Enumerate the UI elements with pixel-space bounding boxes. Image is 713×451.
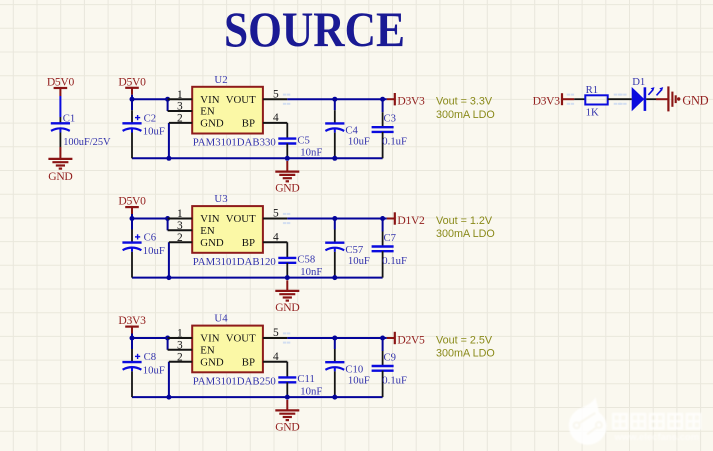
svg-text:C3: C3 — [384, 113, 396, 125]
svg-text:1: 1 — [177, 89, 183, 101]
op-amp regulator U4 PAM3101DAB250 — [192, 313, 276, 388]
svg-text:10uF: 10uF — [348, 255, 370, 267]
wire input rail — [132, 337, 168, 339]
svg-text:C5: C5 — [297, 134, 309, 146]
svg-text:10uF: 10uF — [143, 126, 165, 138]
wire output rail — [283, 332, 387, 343]
svg-text:10uF: 10uF — [348, 136, 370, 148]
pin 5 VOUT stub — [263, 218, 287, 220]
wire C1 to ground — [59, 147, 61, 159]
svg-text:R1: R1 — [586, 84, 598, 96]
pin 1 VIN stub — [168, 337, 193, 339]
svg-text:1: 1 — [177, 208, 183, 220]
wire input rail — [132, 98, 168, 100]
svg-text:4: 4 — [273, 231, 279, 243]
svg-text:D5V0: D5V0 — [118, 195, 146, 208]
wire D1 cathode — [646, 98, 656, 100]
svg-text:D5V0: D5V0 — [118, 75, 146, 88]
node junction bottom rail pin2 — [166, 395, 171, 400]
resistor R1 1K — [585, 84, 607, 119]
svg-text:C2: C2 — [144, 112, 156, 124]
svg-text:10nF: 10nF — [300, 147, 322, 159]
wire pin1 to pin3 (EN tie) — [167, 338, 169, 350]
svg-text:Vout = 2.5V: Vout = 2.5V — [436, 334, 493, 346]
capacitor C11 10nF (bypass) — [278, 362, 322, 398]
svg-text:VIN: VIN — [200, 333, 219, 345]
node junction pin1 — [165, 97, 170, 102]
svg-text:U2: U2 — [214, 74, 227, 86]
svg-text:VOUT: VOUT — [226, 333, 256, 345]
ground GND (bar style, LED return) — [668, 86, 708, 111]
wire R1 to D1 — [608, 98, 632, 100]
svg-text:GND: GND — [682, 93, 708, 107]
node input junction at C2 — [130, 97, 135, 102]
node junction bottom C57 — [332, 275, 337, 280]
capacitor C58 10nF (bypass) — [278, 242, 322, 278]
node input junction at C6 — [130, 216, 135, 221]
svg-text:PAM3101DAB250: PAM3101DAB250 — [193, 375, 276, 387]
node junction output C10 — [332, 336, 337, 341]
node junction output C9 — [380, 336, 385, 341]
wire bottom ground rail — [132, 157, 383, 159]
svg-text:D5V0: D5V0 — [47, 75, 75, 88]
op-amp regulator U3 PAM3101DAB120 — [192, 193, 276, 268]
node junction pin1 — [165, 216, 170, 221]
capacitor C8 10uF (input) — [122, 338, 164, 397]
pin 4 BP stub — [263, 241, 287, 243]
power port D5V0 row U3 — [118, 195, 146, 219]
svg-text:2: 2 — [177, 351, 183, 363]
svg-text:100uF/25V: 100uF/25V — [63, 137, 111, 148]
svg-text:1K: 1K — [586, 107, 599, 119]
capacitor C9 0.1uF (output) — [372, 338, 407, 397]
svg-text:300mA LDO: 300mA LDO — [436, 109, 495, 121]
pin 4 BP stub — [263, 122, 287, 124]
svg-text:PAM3101DAB120: PAM3101DAB120 — [193, 256, 276, 268]
node junction bottom C4 — [332, 156, 337, 161]
svg-text:10uF: 10uF — [143, 245, 165, 257]
svg-text:SOURCE: SOURCE — [224, 1, 405, 57]
wire pin1 to pin3 (EN tie) — [167, 219, 169, 231]
svg-text:GND: GND — [200, 356, 224, 368]
pin 3 EN stub — [168, 110, 193, 112]
power port D3V3 row U4 — [118, 314, 146, 338]
svg-text:4: 4 — [273, 351, 279, 363]
annotation Vout = 1.2V — [436, 215, 495, 240]
svg-text:5: 5 — [273, 88, 279, 100]
ground below C1 — [48, 159, 72, 183]
wire input rail — [132, 218, 168, 220]
power port D2V5 (output) — [387, 332, 425, 347]
capacitor C6 10uF (input) — [122, 219, 164, 278]
wire output rail — [283, 94, 387, 105]
svg-text:GND: GND — [275, 420, 299, 433]
capacitor C10 10uF (output) — [325, 338, 370, 397]
svg-text:D3V3: D3V3 — [533, 95, 561, 108]
svg-text:BP: BP — [242, 237, 255, 249]
svg-text:300mA LDO: 300mA LDO — [436, 228, 495, 240]
wire to GND bar — [656, 98, 668, 100]
svg-text:10nF: 10nF — [300, 385, 322, 397]
annotation Vout = 2.5V — [436, 334, 495, 359]
svg-text:GND: GND — [48, 170, 72, 183]
svg-text:EN: EN — [200, 106, 215, 118]
watermark logo elecfans — [569, 397, 607, 445]
node junction bypass cap bottom — [285, 156, 290, 161]
pin 2 GND stub — [169, 361, 192, 363]
svg-text:VIN: VIN — [200, 213, 219, 225]
watermark text elecfans — [613, 414, 700, 428]
svg-text:0.1uF: 0.1uF — [382, 136, 407, 148]
capacitor C57 10uF (output) — [325, 219, 370, 278]
svg-text:3: 3 — [177, 220, 183, 232]
svg-text:GND: GND — [200, 237, 224, 249]
svg-text:BP: BP — [242, 356, 255, 368]
node junction bypass cap bottom — [285, 275, 290, 280]
svg-text:10uF: 10uF — [348, 374, 370, 386]
pin 3 EN stub — [168, 349, 193, 351]
node junction output C57 — [332, 216, 337, 221]
node junction bottom rail pin2 — [166, 275, 171, 280]
svg-text:300mA LDO: 300mA LDO — [436, 348, 495, 360]
svg-text:U3: U3 — [214, 193, 227, 205]
svg-text:GND: GND — [200, 118, 224, 130]
svg-text:C11: C11 — [297, 373, 314, 385]
svg-text:C1: C1 — [63, 113, 75, 125]
node input junction at C8 — [130, 336, 135, 341]
svg-text:D2V5: D2V5 — [397, 334, 425, 347]
power port D1V2 (output) — [387, 212, 425, 227]
svg-text:C6: C6 — [144, 232, 157, 244]
power port D3V3 (LED branch) — [533, 93, 575, 107]
wire pin1 to pin3 (EN tie) — [167, 99, 169, 111]
node junction output C7 — [380, 216, 385, 221]
pin 5 VOUT stub — [263, 98, 287, 100]
wire bottom ground rail — [132, 396, 383, 398]
annotation Vout = 3.3V — [436, 96, 495, 121]
svg-text:2: 2 — [177, 113, 183, 125]
wire D3V3 to R1 — [567, 94, 570, 96]
svg-text:PAM3101DAB330: PAM3101DAB330 — [193, 137, 276, 149]
wire bottom ground rail — [132, 277, 383, 279]
svg-text:GND: GND — [275, 301, 299, 314]
node junction output C4 — [332, 97, 337, 102]
svg-text:EN: EN — [200, 345, 215, 357]
svg-text:www.elecfans.com: www.elecfans.com — [614, 432, 700, 443]
svg-text:D1: D1 — [632, 76, 645, 88]
capacitor C2 10uF (input) — [122, 99, 164, 158]
pin 1 VIN stub — [168, 218, 193, 220]
svg-text:GND: GND — [275, 182, 299, 195]
node junction pin1 — [165, 336, 170, 341]
svg-text:C58: C58 — [297, 254, 315, 266]
svg-text:C9: C9 — [384, 352, 396, 364]
pin 3 EN stub — [168, 229, 193, 231]
ground below U4 — [275, 400, 299, 434]
pin 5 VOUT stub — [263, 337, 287, 339]
svg-text:C8: C8 — [144, 351, 156, 363]
node junction bypass cap bottom — [285, 395, 290, 400]
node junction bottom rail pin2 — [166, 156, 171, 161]
pin 1 VIN stub — [168, 98, 193, 100]
op-amp regulator U2 PAM3101DAB330 — [192, 74, 276, 149]
svg-text:5: 5 — [273, 208, 279, 220]
svg-text:Vout = 1.2V: Vout = 1.2V — [436, 215, 493, 227]
pin 2 GND stub — [169, 241, 192, 243]
power port D5V0 row U2 — [118, 75, 146, 99]
svg-text:VOUT: VOUT — [226, 213, 256, 225]
node junction output C3 — [380, 97, 385, 102]
capacitor C1 100uF/25V — [51, 96, 111, 148]
ground below U2 — [275, 161, 299, 195]
svg-text:D3V3: D3V3 — [397, 95, 425, 108]
wire pin2 to bottom rail — [168, 242, 170, 277]
capacitor C4 10uF (output) — [325, 99, 370, 158]
svg-text:C7: C7 — [384, 232, 397, 244]
wire output rail — [283, 213, 387, 224]
svg-text:EN: EN — [200, 225, 215, 237]
capacitor C5 10nF (bypass) — [278, 123, 322, 159]
svg-text:3: 3 — [177, 101, 183, 113]
svg-text:4: 4 — [273, 112, 279, 124]
svg-text:2: 2 — [177, 232, 183, 244]
capacitor C3 0.1uF (output) — [372, 99, 407, 158]
wire pin2 to bottom rail — [168, 362, 170, 397]
svg-text:0.1uF: 0.1uF — [382, 255, 407, 267]
svg-text:10nF: 10nF — [300, 266, 322, 278]
svg-text:D1V2: D1V2 — [397, 214, 425, 227]
svg-text:10uF: 10uF — [143, 364, 165, 376]
svg-text:0.1uF: 0.1uF — [382, 374, 407, 386]
ground below U3 — [275, 280, 299, 314]
wire pin2 to bottom rail — [168, 123, 170, 158]
diode D1 LED — [632, 76, 664, 111]
power port D3V3 (output) — [387, 93, 425, 108]
capacitor C7 0.1uF (output) — [372, 219, 407, 278]
power port D5V0 (C1 branch) — [47, 75, 75, 96]
svg-text:D3V3: D3V3 — [118, 314, 146, 327]
svg-text:VIN: VIN — [200, 94, 219, 106]
pin 4 BP stub — [263, 361, 287, 363]
svg-text:BP: BP — [242, 118, 255, 130]
svg-text:U4: U4 — [214, 313, 228, 325]
node junction bottom C10 — [332, 395, 337, 400]
svg-text:VOUT: VOUT — [226, 94, 256, 106]
svg-text:1: 1 — [177, 328, 183, 340]
svg-text:5: 5 — [273, 327, 279, 339]
svg-text:3: 3 — [177, 339, 183, 351]
pin 2 GND stub — [169, 122, 192, 124]
svg-text:Vout = 3.3V: Vout = 3.3V — [436, 96, 493, 108]
